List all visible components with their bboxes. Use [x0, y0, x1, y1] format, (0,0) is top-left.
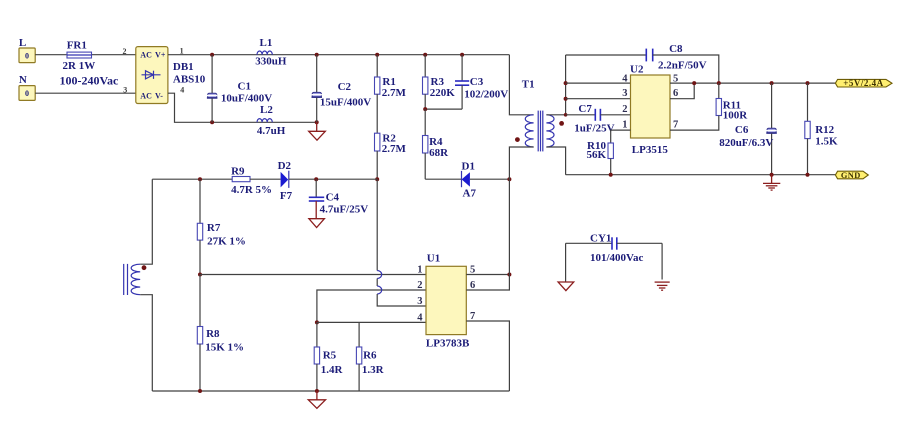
- wire U2 pin1 to R10: [611, 130, 631, 143]
- svg-text:56K: 56K: [586, 149, 606, 161]
- svg-text:C3: C3: [470, 76, 484, 88]
- resistor R8: [197, 275, 202, 392]
- svg-text:2: 2: [622, 104, 627, 115]
- wire R7/R8 node to U1 pin1: [200, 274, 426, 276]
- svg-text:2R 1W: 2R 1W: [63, 60, 96, 72]
- capacitor C6: [766, 83, 777, 175]
- power flag +5V/2.4A: [835, 78, 892, 88]
- svg-text:C8: C8: [669, 43, 683, 55]
- wire U1 pin6 riser: [466, 179, 509, 290]
- svg-text:4.7R 5%: 4.7R 5%: [231, 184, 272, 196]
- inductor L1: [257, 51, 272, 55]
- junction dot C6 bottom: [770, 173, 774, 177]
- junction dot bottom loop C1: [210, 120, 214, 124]
- svg-text:R7: R7: [207, 222, 221, 234]
- wire secondary ground rail: [566, 174, 836, 176]
- svg-text:T1: T1: [522, 79, 535, 91]
- svg-text:R5: R5: [323, 349, 337, 361]
- svg-text:+5V/2.4A: +5V/2.4A: [843, 78, 883, 88]
- svg-text:1.5K: 1.5K: [815, 136, 838, 148]
- svg-text:100-240Vac: 100-240Vac: [60, 74, 120, 88]
- svg-text:R9: R9: [231, 165, 245, 177]
- resistor R9: [232, 177, 280, 182]
- ground below bottom rail: [308, 391, 325, 408]
- svg-text:4: 4: [180, 86, 184, 95]
- wire D1 to primary return: [470, 178, 510, 180]
- svg-text:7: 7: [673, 120, 678, 131]
- svg-text:N: N: [19, 74, 27, 86]
- svg-text:2.2nF/50V: 2.2nF/50V: [658, 60, 707, 72]
- capacitor C4: [309, 179, 324, 218]
- svg-text:LP3783B: LP3783B: [426, 338, 470, 350]
- earth ground below C6: [763, 175, 780, 190]
- svg-text:220K: 220K: [430, 87, 456, 99]
- junction dot pin6 riser: [692, 81, 696, 85]
- svg-text:2.7M: 2.7M: [382, 143, 407, 155]
- svg-text:1uF/25V: 1uF/25V: [574, 122, 614, 134]
- wire U2 pin3 row: [566, 98, 631, 100]
- svg-text:0: 0: [25, 51, 29, 60]
- wire R3/C3 bottom junction: [425, 108, 462, 110]
- junction dot bottom loop C2: [315, 120, 319, 124]
- diode D1: [462, 171, 470, 187]
- T1 auxiliary winding: [124, 179, 153, 391]
- svg-text:C7: C7: [578, 103, 592, 115]
- svg-text:4: 4: [622, 73, 628, 84]
- svg-text:L1: L1: [260, 37, 273, 49]
- svg-text:R12: R12: [815, 124, 834, 136]
- capacitor C8: [646, 49, 719, 84]
- capacitor C2: [312, 55, 323, 123]
- svg-text:100R: 100R: [723, 109, 749, 121]
- svg-text:101/400Vac: 101/400Vac: [590, 252, 643, 264]
- wire bottom loop rail: [212, 121, 317, 123]
- svg-text:FR1: FR1: [67, 39, 87, 51]
- resistor R4: [423, 109, 428, 179]
- junction dot R7/R8 node: [198, 273, 202, 277]
- svg-text:D2: D2: [278, 160, 292, 172]
- wire VCC row (aux to R9/D2/C4): [152, 178, 232, 180]
- wire R4 to D1: [425, 178, 461, 180]
- junction dot rail R3: [423, 53, 427, 57]
- svg-text:CY1: CY1: [590, 233, 611, 245]
- wire top HV rail: [168, 54, 510, 56]
- T1 secondary polarity dot: [559, 121, 564, 126]
- svg-text:AC V+: AC V+: [140, 51, 166, 60]
- svg-text:R8: R8: [206, 328, 220, 340]
- resistor R3: [423, 55, 428, 109]
- junction dot R5 bottom: [315, 389, 319, 393]
- capacitor C3: [455, 55, 469, 109]
- svg-text:C2: C2: [338, 81, 352, 93]
- wire U1 pin2 riser: [317, 290, 426, 322]
- junction dot R12 bottom: [806, 173, 810, 177]
- wire +5V output rail: [670, 82, 835, 84]
- svg-text:0: 0: [25, 89, 29, 98]
- resistor R7: [197, 179, 202, 274]
- ground below C4: [309, 219, 325, 228]
- capacitor CY1: [566, 237, 663, 281]
- svg-text:102/200V: 102/200V: [464, 89, 508, 101]
- svg-text:C6: C6: [735, 124, 749, 136]
- wire DB1 pin4 jog down to bottom loop: [168, 93, 212, 122]
- svg-text:1.3R: 1.3R: [362, 364, 385, 376]
- svg-text:LP3515: LP3515: [632, 144, 669, 156]
- wire U2 pin6 riser: [670, 83, 694, 99]
- svg-text:A7: A7: [463, 188, 477, 200]
- junction dot R7 top: [198, 177, 202, 181]
- IC U1 LP3783B: [426, 266, 466, 334]
- svg-text:R1: R1: [382, 76, 395, 88]
- junction dot R2 bottom node: [375, 177, 379, 181]
- svg-text:L2: L2: [260, 104, 273, 116]
- svg-text:1.4R: 1.4R: [321, 364, 344, 376]
- inductor L2: [257, 119, 272, 123]
- capacitor C1: [207, 55, 218, 123]
- wire L to DB1 pin2: [35, 54, 136, 56]
- bridge rectifier DB1: [136, 47, 168, 104]
- junction dot pin5 node: [507, 273, 511, 277]
- svg-text:27K 1%: 27K 1%: [207, 236, 246, 248]
- svg-text:15uF/400V: 15uF/400V: [320, 97, 371, 109]
- junction dot R3 bottom: [423, 107, 427, 111]
- svg-text:R6: R6: [363, 349, 377, 361]
- svg-text:15K 1%: 15K 1%: [205, 341, 244, 353]
- svg-text:DB1: DB1: [173, 61, 194, 73]
- resistor R6: [356, 322, 361, 391]
- junction dot secondary top tee: [564, 113, 568, 117]
- T1 primary polarity dot: [515, 137, 520, 142]
- power flag GND: [835, 171, 868, 180]
- svg-text:C1: C1: [238, 81, 251, 93]
- diode D2: [281, 171, 378, 188]
- junction dot R8 bottom: [198, 389, 202, 393]
- resistor R10: [608, 143, 613, 175]
- IC U2 LP3515: [631, 75, 671, 138]
- svg-text:1: 1: [622, 120, 627, 131]
- wire R2 divider down to U1 pin3 with hops: [377, 179, 426, 306]
- svg-text:1: 1: [417, 265, 422, 276]
- junction dot rail C3: [460, 53, 464, 57]
- svg-text:U1: U1: [427, 252, 440, 264]
- wire U1 pin4 row: [317, 321, 426, 323]
- aux winding polarity dot: [142, 265, 147, 270]
- svg-text:2: 2: [123, 47, 127, 56]
- wire U2 pin2 row with C7: [566, 114, 596, 116]
- svg-text:6: 6: [673, 88, 678, 99]
- resistor R11: [670, 83, 722, 130]
- svg-text:2: 2: [417, 280, 422, 291]
- svg-text:U2: U2: [630, 63, 644, 75]
- junction dot rail C2: [315, 53, 319, 57]
- svg-text:3: 3: [123, 86, 127, 95]
- svg-text:L: L: [19, 37, 26, 49]
- transformer T1: [509, 55, 565, 180]
- wire secondary vertical to C8/pins: [565, 55, 567, 115]
- svg-text:3: 3: [622, 88, 627, 99]
- ground below C2 junction: [309, 122, 326, 140]
- svg-text:C4: C4: [326, 192, 340, 204]
- junction dot pin4 tap: [564, 81, 568, 85]
- svg-text:10uF/400V: 10uF/400V: [221, 92, 272, 104]
- resistor R2: [375, 133, 380, 179]
- junction dot R10 bottom: [609, 173, 613, 177]
- svg-text:R3: R3: [431, 76, 445, 88]
- svg-text:68R: 68R: [429, 147, 449, 159]
- svg-text:4.7uF/25V: 4.7uF/25V: [320, 204, 369, 216]
- junction dot R11 top: [717, 81, 721, 85]
- svg-text:AC V-: AC V-: [140, 91, 163, 100]
- junction dot C6 top: [770, 81, 774, 85]
- junction dot pin2 riser on pin4 wire: [315, 320, 319, 324]
- svg-text:330uH: 330uH: [255, 55, 287, 67]
- wire U1 pin7 loop to bottom rail: [466, 321, 509, 391]
- junction dot R12 top: [806, 81, 810, 85]
- fuse FR1: [67, 52, 92, 58]
- svg-text:F7: F7: [280, 190, 293, 202]
- svg-text:4: 4: [417, 313, 423, 324]
- wire primary-side bottom rail: [152, 390, 509, 392]
- junction dot C4 top: [314, 177, 318, 181]
- earth ground below CY1 right: [655, 282, 670, 290]
- ground below CY1 left: [558, 282, 574, 291]
- svg-text:ABS10: ABS10: [173, 73, 206, 85]
- wire U2 pin4 row: [566, 82, 631, 84]
- resistor R5: [314, 322, 319, 391]
- svg-text:4.7uH: 4.7uH: [257, 125, 286, 137]
- capacitor C7: [595, 109, 630, 121]
- wire U1 pin5 to drain node: [466, 274, 509, 276]
- svg-text:D1: D1: [462, 161, 475, 173]
- wire C8 top run: [566, 54, 647, 56]
- resistor R12: [805, 83, 810, 175]
- junction dot rail R1: [375, 53, 379, 57]
- svg-text:GND: GND: [841, 171, 861, 180]
- resistor R1: [375, 55, 380, 134]
- wire N to DB1 pin3: [35, 92, 136, 94]
- junction dot pin3 tap: [564, 97, 568, 101]
- svg-text:2.7M: 2.7M: [382, 87, 407, 99]
- terminal N: [19, 74, 35, 100]
- svg-text:820uF/6.3V: 820uF/6.3V: [719, 137, 773, 149]
- junction dot rail C1: [210, 53, 214, 57]
- terminal L: [19, 37, 35, 63]
- junction dot D1 node: [507, 177, 511, 181]
- svg-text:3: 3: [417, 296, 422, 307]
